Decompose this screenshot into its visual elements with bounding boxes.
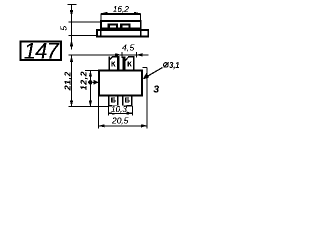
tab K1	[109, 56, 120, 70]
svg-text:147: 147	[24, 39, 60, 64]
svg-text:Б: Б	[111, 96, 117, 105]
cover/base junction band	[100, 28, 140, 31]
tab B2	[123, 96, 132, 106]
svg-text:К: К	[111, 59, 116, 68]
part number box 147	[20, 39, 61, 64]
base plate	[97, 30, 148, 37]
svg-text:4,5: 4,5	[122, 42, 134, 52]
extension of cover top	[69, 21, 101, 23]
cover side lines through base	[100, 29, 102, 37]
tab B1	[109, 96, 118, 106]
dim 12,2	[78, 71, 98, 107]
top view: cover box	[97, 21, 148, 37]
small arrow at body left wall	[93, 80, 99, 85]
slot 1	[108, 23, 119, 29]
extension of base bottom	[69, 35, 98, 37]
hole leader diameter 3,1	[143, 61, 180, 80]
tab K2	[123, 56, 135, 70]
dim 16,2	[101, 4, 141, 21]
main body	[99, 71, 142, 96]
dim 20,5	[99, 96, 148, 129]
svg-text:21,2: 21,2	[63, 71, 73, 91]
dim line 4,5 / top extension of 21,2	[69, 42, 149, 58]
right rim line	[143, 68, 148, 96]
dim 5 (left of top view)	[59, 5, 101, 50]
dim 10,3	[108, 105, 132, 116]
svg-text:К: К	[127, 59, 132, 68]
svg-text:5: 5	[59, 26, 69, 31]
svg-text:10,3: 10,3	[111, 105, 127, 114]
svg-text:16,2: 16,2	[113, 4, 130, 14]
dim 21,2	[63, 55, 74, 107]
extension line bottom (21,2 / 12,2)	[69, 106, 110, 108]
svg-text:20,5: 20,5	[111, 115, 129, 125]
svg-text:3,1: 3,1	[169, 61, 179, 71]
slot 2	[120, 23, 131, 29]
svg-text:3: 3	[153, 85, 159, 96]
svg-text:12,2: 12,2	[78, 71, 88, 90]
svg-text:Б: Б	[125, 96, 131, 105]
